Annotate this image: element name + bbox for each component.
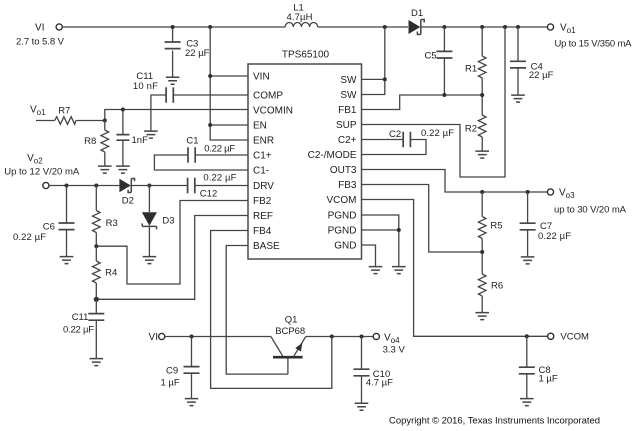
node Vo1 feed label [30,105,46,118]
svg-text:0.22 µF: 0.22 µF [13,232,46,243]
capacitor C8 [519,336,558,398]
svg-text:R2: R2 [465,124,477,135]
capacitor C3 [165,27,210,77]
terminal Vo4 output [373,333,405,356]
svg-text:22 µF: 22 µF [529,70,554,81]
svg-text:ENR: ENR [253,136,274,147]
wire D2 to C12 [132,185,187,187]
svg-text:1 µF: 1 µF [161,378,180,389]
capacitor C6 [13,186,75,257]
diode D1 (Schottky) [409,8,425,35]
svg-text:C9: C9 [166,366,178,377]
svg-text:0.22 µF: 0.22 µF [204,144,235,155]
svg-text:R6: R6 [491,281,503,292]
svg-text:VCOM: VCOM [327,195,357,206]
capacitor 1nF [116,110,148,166]
ground (C4) [511,95,525,102]
svg-text:R7: R7 [58,106,70,117]
capacitor C4 [510,27,554,95]
svg-text:Up to 12 V/20 mA: Up to 12 V/20 mA [4,167,80,178]
terminal Vo2 output [4,153,80,189]
op-amp U1: IC TPS65100 body [248,50,362,260]
svg-text:1 µF: 1 µF [539,374,558,385]
svg-text:1nF: 1nF [132,135,149,146]
ground (C11 comp) [144,131,158,138]
capacitor C2 with wires to C2+ and C2-/MODE [362,128,455,155]
ground (GND) [369,267,383,274]
capacitor C11 (COMP compensation) [133,71,248,131]
ground (C9) [185,399,199,406]
svg-text:VIN: VIN [253,72,270,83]
svg-text:SUP: SUP [336,120,357,131]
resistor R8 [84,121,109,166]
svg-text:R1: R1 [465,64,477,75]
resistor R4 [93,246,118,299]
svg-text:C12: C12 [200,189,217,200]
svg-text:D2: D2 [122,196,134,207]
svg-text:C5: C5 [425,51,437,62]
resistor R5 [478,192,502,252]
wire FB3 to R5/R6 node [362,185,483,253]
svg-text:0.22 µF: 0.22 µF [63,325,94,336]
terminal VI (bottom) [149,332,165,343]
svg-text:C6: C6 [43,222,55,233]
svg-text:EN: EN [253,121,267,132]
ground (R8) [98,166,112,173]
capacitor C5 [425,27,453,95]
capacitor C1 flying cap [154,136,248,171]
svg-text:FB3: FB3 [338,180,357,191]
svg-text:C1: C1 [186,136,198,147]
svg-text:Up to 15 V/350 mA: Up to 15 V/350 mA [555,39,633,50]
ground (C11 ref) [90,359,104,366]
svg-text:0.22 µF: 0.22 µF [421,128,454,139]
svg-text:C11: C11 [72,312,89,323]
wire OUT3 to Vo3 rail [362,170,548,193]
svg-text:DRV: DRV [253,181,274,192]
ground (C7) [521,257,535,264]
wire L1 to D1 [318,26,408,28]
ground (R2) [475,151,489,158]
svg-text:R4: R4 [105,268,117,279]
svg-text:2.7 to 5.8 V: 2.7 to 5.8 V [16,37,65,48]
svg-text:4.7 µF: 4.7 µF [366,378,393,389]
ground (C10) [355,403,369,410]
wire SUP to Vo1 rail [362,27,506,177]
wire FB4 to Vo4 node [211,231,332,389]
wire VCOM pin to VCOM rail [362,200,548,337]
wire top rail VI to L1 [62,26,285,28]
svg-text:4.7µH: 4.7µH [287,12,313,23]
resistor R2 [465,95,486,151]
diode D3 (Schottky to ground) [142,186,175,257]
svg-text:Q1: Q1 [285,315,298,326]
svg-text:FB4: FB4 [253,226,272,237]
terminal VI (input) [16,23,65,48]
svg-text:REF: REF [253,211,273,222]
svg-text:GND: GND [334,241,356,252]
ground (R6) [475,313,489,320]
svg-text:C1+: C1+ [253,151,272,162]
ground (D3) [143,257,157,264]
diode D2 (Schottky) [119,179,134,207]
svg-text:up to 30 V/20 mA: up to 30 V/20 mA [554,205,627,216]
svg-text:VCOMIN: VCOMIN [253,106,293,117]
svg-text:3.3 V: 3.3 V [383,345,406,356]
terminal Vo3 output [547,188,626,216]
node: top rail junctions [171,25,520,29]
svg-text:D1: D1 [411,8,423,19]
wire Q1 emitter to Vo4 [306,336,373,338]
svg-text:TPS65100: TPS65100 [282,50,330,61]
svg-text:VI: VI [35,23,44,34]
svg-text:VCOM: VCOM [560,332,589,343]
resistor R7 [36,106,105,125]
svg-text:10 nF: 10 nF [133,81,158,92]
svg-text:C2+: C2+ [338,135,357,146]
svg-text:22 µF: 22 µF [185,48,210,59]
capacitor C10 [354,337,394,403]
wire SW pins to top rail [362,27,385,95]
wire Vo2 rail to D2 [49,185,119,187]
wire R7/R8 node to VCOMIN [105,110,248,121]
wire VI to Q1 collector [165,336,271,338]
svg-text:0.22 µF: 0.22 µF [203,173,236,184]
wire FB1 to R1/R2 node [362,95,483,110]
terminal VCOM [548,332,589,343]
transistor Q1 BCP68 [271,315,306,375]
wire REF to R4/C11 node [96,216,248,300]
ground (PGND) [392,267,406,274]
capacitor C11 (REF filter) [63,299,104,358]
ground (C6) [60,257,74,264]
svg-text:OUT3: OUT3 [330,165,357,176]
resistor R6 [478,252,503,312]
svg-text:PGND: PGND [328,226,357,237]
ground (C8) [520,399,534,406]
svg-text:PGND: PGND [328,211,357,222]
svg-text:D3: D3 [162,216,174,227]
ground (C3) [166,77,180,84]
svg-text:0.22 µF: 0.22 µF [538,231,571,242]
svg-text:COMP: COMP [253,91,283,102]
ground (1nF) [116,166,130,173]
svg-text:BCP68: BCP68 [275,326,305,337]
svg-text:Copyright © 2016, Texas Instru: Copyright © 2016, Texas Instruments Inco… [389,416,600,427]
wire FB2 to R3/R4 node [96,201,248,285]
capacitor C12 [188,173,248,200]
svg-text:SW: SW [340,90,357,101]
wire PGND pins to ground [362,215,399,266]
capacitor C7 [520,192,572,256]
svg-text:SW: SW [340,75,357,86]
wire D1 to Vo1 terminal [422,26,548,28]
resistor R1 [465,27,486,95]
svg-text:FB2: FB2 [253,196,272,207]
inductor L1 [285,3,317,28]
svg-text:R8: R8 [84,136,96,147]
svg-text:BASE: BASE [253,241,280,252]
svg-text:C2-/MODE: C2-/MODE [308,150,357,161]
svg-text:VI: VI [149,332,158,343]
terminal Vo1 output [547,23,632,50]
capacitor C9 [161,337,200,399]
resistor R3 [93,186,118,247]
wire GND pin to ground [362,245,376,266]
svg-text:FB1: FB1 [338,105,357,116]
wire BASE pin to Q1 base [226,246,288,375]
svg-text:R3: R3 [106,218,118,229]
svg-text:C1-: C1- [253,166,269,177]
svg-text:C2: C2 [389,129,401,140]
wire VI branch to VIN/EN/ENR [210,27,248,140]
svg-text:R5: R5 [490,221,502,232]
